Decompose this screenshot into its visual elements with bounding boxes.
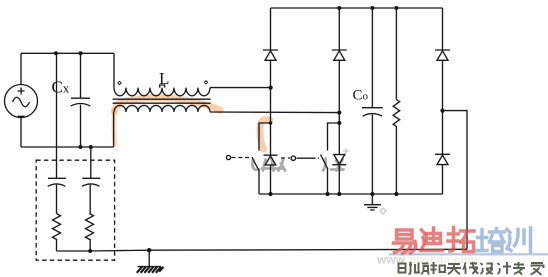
svg-text:Co: Co <box>353 88 369 104</box>
svg-text:L: L <box>159 69 169 88</box>
